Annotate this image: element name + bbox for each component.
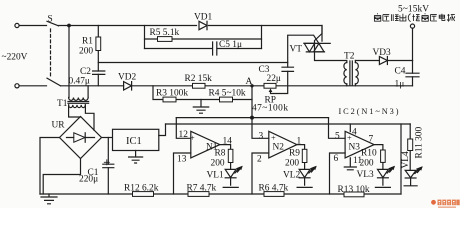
svg-text:R9: R9 bbox=[289, 149, 300, 159]
wire node A vertical bbox=[252, 86, 269, 139]
resistor R9 body bbox=[302, 149, 307, 162]
svg-text:200: 200 bbox=[79, 47, 93, 57]
svg-text:14: 14 bbox=[223, 137, 233, 147]
svg-text:N3: N3 bbox=[349, 143, 361, 153]
LED VL4 arrows bbox=[415, 167, 423, 174]
resistor R4 body bbox=[220, 97, 233, 102]
wire T1 secondary right to bridge bbox=[85, 105, 94, 130]
svg-text:VD2: VD2 bbox=[118, 73, 137, 83]
wire comparator input rail wire1 bbox=[176, 117, 328, 119]
LED VL4 bbox=[405, 170, 416, 177]
label HV output chinese chu bbox=[400, 14, 406, 21]
svg-text:IC1: IC1 bbox=[126, 136, 142, 147]
node junction top rail bbox=[67, 24, 71, 28]
svg-text:VT: VT bbox=[290, 45, 303, 55]
wire N3 plus input bbox=[329, 118, 346, 139]
LED VL1 bbox=[225, 169, 236, 177]
LED VL2 bbox=[299, 169, 310, 177]
label HV output chinese ji bbox=[447, 14, 455, 21]
wire bridge right corner to IC1 bbox=[102, 137, 113, 139]
wire right side vertical to rail bbox=[400, 124, 402, 194]
transformer T1 secondary coil bbox=[69, 105, 86, 108]
triac VT symbol bbox=[304, 43, 330, 52]
transformer T2 left coil bbox=[344, 63, 347, 84]
ground main left bbox=[41, 194, 57, 204]
wire R5 line bbox=[145, 38, 262, 40]
svg-text:R4 5~10k: R4 5~10k bbox=[209, 89, 246, 99]
svg-text:VD3: VD3 bbox=[373, 48, 392, 58]
svg-text:UR: UR bbox=[52, 121, 66, 131]
wire IC2 pin4 stub bbox=[349, 124, 351, 132]
potentiometer RP wiper arrow bbox=[269, 88, 273, 92]
LED VL2 arrows bbox=[309, 167, 317, 174]
wire VD3 line bbox=[355, 60, 412, 62]
svg-text:VL2: VL2 bbox=[283, 171, 300, 181]
svg-text:C4: C4 bbox=[395, 67, 406, 77]
svg-text:12: 12 bbox=[179, 130, 189, 140]
wire N1 minus input pin13 bbox=[174, 153, 191, 194]
wire top rail left bbox=[19, 25, 46, 27]
transformer T1 core bbox=[68, 102, 89, 104]
wire N1 plus input bbox=[176, 118, 191, 139]
svg-text:VD1: VD1 bbox=[194, 13, 213, 23]
svg-text:6: 6 bbox=[334, 154, 339, 164]
svg-text:IC2(N1~N3): IC2(N1~N3) bbox=[339, 107, 399, 116]
wire T1 primary right vertical bbox=[87, 86, 89, 98]
svg-text:VL3: VL3 bbox=[357, 170, 374, 180]
svg-text:R5 5.1k: R5 5.1k bbox=[150, 28, 180, 38]
wire T1 primary left vertical bbox=[68, 26, 70, 98]
wire triac gate riser bbox=[288, 35, 319, 67]
svg-text:R13 10k: R13 10k bbox=[338, 185, 370, 195]
junction dot wire1 at A column bbox=[250, 116, 254, 120]
resistor R8 body bbox=[228, 149, 233, 162]
svg-text:R10: R10 bbox=[361, 149, 377, 159]
svg-text:R8: R8 bbox=[215, 149, 226, 159]
svg-text:3: 3 bbox=[259, 132, 264, 142]
wire R11 branch from supply rail bbox=[409, 124, 411, 170]
wire bridge left corner to ground rail bbox=[40, 138, 60, 195]
capacitor C3 plates bbox=[282, 67, 294, 71]
ground IC1 bbox=[129, 151, 143, 164]
RESISTOR BODIES bbox=[96, 37, 413, 197]
svg-text:R6 4.7k: R6 4.7k bbox=[259, 184, 289, 194]
wire supply rail wire2 bbox=[166, 123, 411, 125]
label HV output chinese shu bbox=[391, 14, 398, 21]
label HV output chinese gao bbox=[374, 14, 380, 21]
svg-text:VL4: VL4 bbox=[401, 151, 411, 168]
wire main bottom left bbox=[19, 85, 412, 87]
watermark bbox=[431, 200, 460, 208]
node A dot on main wire bbox=[250, 84, 253, 87]
svg-text:T2: T2 bbox=[344, 52, 355, 62]
label HV output paren bbox=[408, 14, 410, 22]
wire N3 minus input pin6 bbox=[330, 153, 346, 194]
parallel combo left bar bbox=[144, 26, 146, 49]
wire bridge bottom corner to ground rail bbox=[43, 159, 80, 195]
svg-text:C2: C2 bbox=[80, 67, 91, 77]
svg-text:+: + bbox=[347, 134, 352, 143]
svg-text:2: 2 bbox=[257, 155, 262, 165]
ground branch R3 R4 midpoint bbox=[193, 100, 208, 114]
transformer T1 primary coil bbox=[69, 98, 89, 101]
wire HV output riser bbox=[412, 28, 414, 60]
svg-text:~220V: ~220V bbox=[2, 53, 28, 63]
wire C5 line bbox=[145, 48, 262, 50]
svg-text:22μ: 22μ bbox=[267, 74, 281, 84]
resistor R2 body bbox=[193, 83, 206, 88]
capacitor C1 plates bbox=[103, 164, 114, 168]
switch S link dashed bbox=[50, 29, 52, 78]
wire C3 stem to RP wiper bbox=[271, 71, 288, 93]
op-amp N1 triangle bbox=[191, 131, 220, 158]
LED ARROWS bbox=[235, 166, 423, 174]
IC1 box bbox=[113, 129, 159, 150]
resistor R11 body bbox=[408, 139, 413, 151]
diode VD1 bbox=[199, 21, 207, 29]
LED VL3 arrows bbox=[387, 167, 395, 174]
wire T2 coil stubs bbox=[347, 61, 356, 86]
ground IC2 pin11 bbox=[344, 158, 356, 170]
CJK OUTPUT LABEL bbox=[374, 14, 454, 22]
svg-text:A: A bbox=[246, 77, 253, 87]
resistor R10 body bbox=[381, 150, 386, 162]
svg-text:R7 4.7k: R7 4.7k bbox=[187, 184, 217, 194]
op-amp N3 triangle bbox=[345, 131, 374, 158]
svg-text:1: 1 bbox=[297, 137, 302, 147]
capacitor C5 plates bbox=[213, 42, 217, 55]
transformer T2 right coil bbox=[355, 63, 358, 84]
bottom resistor ladder rail bbox=[40, 193, 401, 195]
resistor R12 body bbox=[133, 192, 154, 197]
svg-text:T1: T1 bbox=[57, 99, 68, 109]
svg-text:N2: N2 bbox=[273, 143, 285, 153]
bridge UR inner diode bbox=[67, 137, 95, 139]
resistor R13 body bbox=[344, 192, 364, 197]
svg-text:S: S bbox=[48, 15, 53, 25]
capacitor C1 plus sign bbox=[104, 160, 109, 165]
capacitor C2 plates bbox=[93, 71, 105, 74]
svg-text:200: 200 bbox=[360, 159, 374, 169]
resistor R6 body bbox=[264, 192, 284, 197]
svg-text:13: 13 bbox=[177, 155, 187, 165]
wire gate tap y62.5 bbox=[98, 62, 287, 64]
svg-text:4: 4 bbox=[352, 128, 357, 138]
resistor R3 body bbox=[163, 97, 176, 102]
switch S top blade bbox=[47, 21, 59, 26]
svg-text:VL1: VL1 bbox=[207, 171, 224, 181]
wire N1 output to R8 bbox=[220, 145, 231, 170]
wire top rail bbox=[59, 26, 323, 42]
label HV output chinese dian bbox=[439, 14, 445, 21]
label HV output chinese gao2 bbox=[422, 14, 428, 21]
svg-text:0.47μ: 0.47μ bbox=[69, 77, 90, 87]
capacitor C4 stem bbox=[412, 61, 414, 86]
capacitor C4 plates bbox=[406, 73, 419, 77]
svg-text:7: 7 bbox=[369, 135, 374, 145]
terminal bottom-left bbox=[15, 84, 19, 88]
terminal HV output bbox=[410, 24, 414, 28]
diode VD3 bbox=[379, 57, 387, 65]
potentiometer RP body bbox=[264, 83, 276, 88]
LED VL1 arrows bbox=[235, 167, 243, 174]
resistor R5 body bbox=[158, 37, 173, 42]
parallel combo right bar bbox=[261, 26, 263, 49]
op-amp N2 triangle bbox=[269, 131, 297, 158]
diode VD2 bbox=[124, 82, 132, 90]
wire R1 branch bbox=[97, 26, 99, 86]
wire N2 minus input pin2 bbox=[252, 153, 269, 194]
svg-text:+: + bbox=[271, 134, 276, 143]
LED VL3 bbox=[378, 169, 389, 177]
svg-text:+: + bbox=[190, 134, 195, 143]
svg-text:220μ: 220μ bbox=[79, 174, 98, 184]
svg-text:200: 200 bbox=[285, 159, 299, 169]
label HV output chinese jie bbox=[412, 14, 419, 21]
resistor R1 body bbox=[96, 37, 101, 51]
bridge rectifier UR diamond bbox=[60, 117, 102, 159]
wire triac MT2 from rail bbox=[315, 26, 323, 44]
svg-text:5~15kV: 5~15kV bbox=[398, 5, 429, 15]
wire R3 R4 lower branch bbox=[153, 86, 252, 100]
terminal top-left bbox=[15, 23, 19, 27]
wire N3 output to R10 bbox=[374, 145, 383, 170]
wire IC1 output riser bbox=[159, 124, 166, 136]
svg-text:5: 5 bbox=[335, 132, 340, 142]
wire T1 secondary left to bridge bbox=[69, 105, 81, 117]
svg-text:1μ: 1μ bbox=[395, 80, 405, 90]
wire triac MT1 to T2 bbox=[315, 43, 347, 62]
switch S bottom blade bbox=[47, 78, 61, 86]
label HV output chinese ya2 bbox=[430, 15, 437, 21]
svg-text:R12 6.2k: R12 6.2k bbox=[124, 184, 159, 194]
svg-text:47~100k: 47~100k bbox=[252, 104, 288, 114]
wire N2 output to R9 bbox=[297, 145, 305, 170]
svg-text:R3 100k: R3 100k bbox=[156, 89, 188, 99]
svg-text:C5 1μ: C5 1μ bbox=[219, 40, 242, 50]
svg-text:R11 300: R11 300 bbox=[415, 127, 425, 159]
svg-text:R2 15k: R2 15k bbox=[185, 74, 213, 84]
label HV output chinese ya bbox=[383, 15, 390, 21]
transformer T2 core bbox=[350, 61, 352, 85]
svg-text:R1: R1 bbox=[82, 37, 93, 47]
svg-text:200: 200 bbox=[211, 159, 225, 169]
capacitor C1 stem bbox=[107, 138, 109, 195]
resistor R7 body bbox=[188, 192, 209, 197]
